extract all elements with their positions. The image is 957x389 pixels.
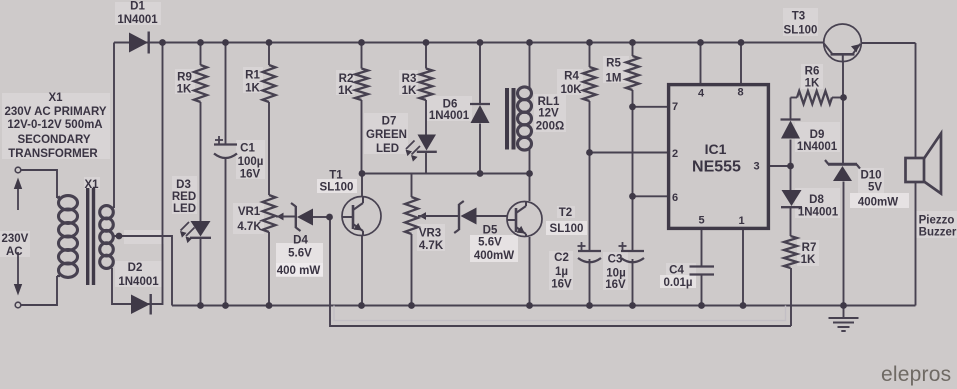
svg-text:230V AC PRIMARY: 230V AC PRIMARY [4, 106, 106, 118]
svg-text:R9: R9 [177, 72, 192, 84]
svg-text:C3: C3 [608, 254, 623, 266]
svg-text:D2: D2 [128, 262, 143, 274]
svg-text:R7: R7 [802, 242, 817, 254]
svg-text:VR3: VR3 [419, 228, 441, 240]
svg-text:5.6V: 5.6V [288, 248, 312, 260]
svg-text:1N4001: 1N4001 [797, 141, 838, 153]
svg-text:1N4001: 1N4001 [429, 110, 470, 122]
svg-text:C2: C2 [554, 252, 569, 264]
svg-text:0.01µ: 0.01µ [663, 277, 692, 289]
svg-text:D5: D5 [483, 225, 498, 237]
svg-text:D4: D4 [293, 235, 308, 247]
svg-text:R2: R2 [339, 73, 354, 85]
svg-text:7: 7 [672, 101, 678, 113]
svg-text:6: 6 [672, 192, 678, 204]
svg-text:C1: C1 [240, 143, 255, 155]
svg-text:1M: 1M [606, 73, 622, 85]
svg-text:AC: AC [6, 246, 23, 258]
svg-text:T2: T2 [559, 207, 572, 219]
svg-text:1µ: 1µ [555, 266, 568, 278]
svg-text:4: 4 [698, 88, 705, 100]
svg-text:400mW: 400mW [474, 250, 514, 262]
svg-text:1: 1 [738, 215, 744, 227]
svg-text:R1: R1 [245, 70, 260, 82]
svg-text:3: 3 [753, 161, 759, 173]
svg-text:200Ω: 200Ω [536, 121, 564, 133]
svg-text:1K: 1K [245, 83, 260, 95]
svg-text:C4: C4 [669, 265, 684, 277]
svg-text:400mW: 400mW [858, 197, 898, 209]
svg-text:10µ: 10µ [606, 268, 625, 280]
svg-text:5V: 5V [868, 182, 882, 194]
svg-text:10K: 10K [560, 84, 582, 96]
svg-text:1K: 1K [805, 78, 820, 90]
svg-text:1N4001: 1N4001 [117, 14, 158, 26]
svg-text:230V: 230V [2, 233, 29, 245]
svg-text:16V: 16V [551, 279, 572, 291]
svg-text:12V: 12V [538, 108, 559, 120]
svg-text:D7: D7 [382, 116, 397, 128]
svg-text:D10: D10 [860, 170, 881, 182]
svg-text:2: 2 [672, 148, 678, 160]
svg-text:1K: 1K [801, 254, 816, 266]
svg-text:5: 5 [698, 215, 704, 227]
svg-text:R5: R5 [606, 58, 621, 70]
svg-text:1N4001: 1N4001 [118, 276, 159, 288]
svg-text:1N4001: 1N4001 [798, 207, 839, 219]
svg-text:LED: LED [173, 203, 196, 215]
svg-text:8: 8 [737, 87, 743, 99]
svg-text:12V-0-12V 500mA: 12V-0-12V 500mA [7, 119, 102, 131]
svg-text:elepros: elepros [881, 363, 951, 386]
svg-text:T1: T1 [329, 170, 343, 182]
svg-text:SL100: SL100 [784, 25, 818, 37]
svg-text:X1: X1 [48, 92, 63, 104]
svg-text:D3: D3 [176, 179, 191, 191]
svg-text:D8: D8 [809, 194, 824, 206]
svg-text:TRANSFORMER: TRANSFORMER [8, 148, 98, 160]
svg-text:16V: 16V [605, 279, 626, 291]
svg-text:VR1: VR1 [238, 206, 261, 218]
svg-text:LED: LED [376, 143, 399, 155]
svg-text:GREEN: GREEN [366, 129, 407, 141]
svg-text:D9: D9 [810, 129, 825, 141]
svg-text:R3: R3 [402, 73, 417, 85]
svg-text:SECONDARY: SECONDARY [17, 134, 90, 146]
svg-text:D6: D6 [443, 99, 458, 111]
svg-text:R4: R4 [564, 71, 579, 83]
svg-text:RL1: RL1 [538, 96, 560, 108]
svg-text:SL100: SL100 [320, 182, 354, 194]
svg-text:1K: 1K [177, 84, 192, 96]
svg-text:RED: RED [172, 191, 196, 203]
svg-text:16V: 16V [240, 169, 261, 181]
svg-text:4.7K: 4.7K [419, 240, 444, 252]
svg-text:Buzzer: Buzzer [919, 227, 957, 239]
svg-text:4.7K: 4.7K [237, 221, 262, 233]
svg-text:NE555: NE555 [692, 159, 741, 176]
svg-text:1K: 1K [402, 85, 417, 97]
svg-text:Piezzo: Piezzo [919, 215, 955, 227]
svg-text:T3: T3 [792, 11, 805, 23]
svg-text:D1: D1 [130, 1, 145, 13]
svg-text:100µ: 100µ [238, 156, 264, 168]
svg-text:400 mW: 400 mW [277, 265, 321, 277]
svg-text:1K: 1K [338, 85, 353, 97]
svg-text:R6: R6 [805, 66, 820, 78]
svg-text:5.6V: 5.6V [478, 237, 502, 249]
svg-text:X1: X1 [84, 179, 99, 191]
svg-text:SL100: SL100 [550, 223, 584, 235]
svg-text:IC1: IC1 [705, 141, 727, 157]
